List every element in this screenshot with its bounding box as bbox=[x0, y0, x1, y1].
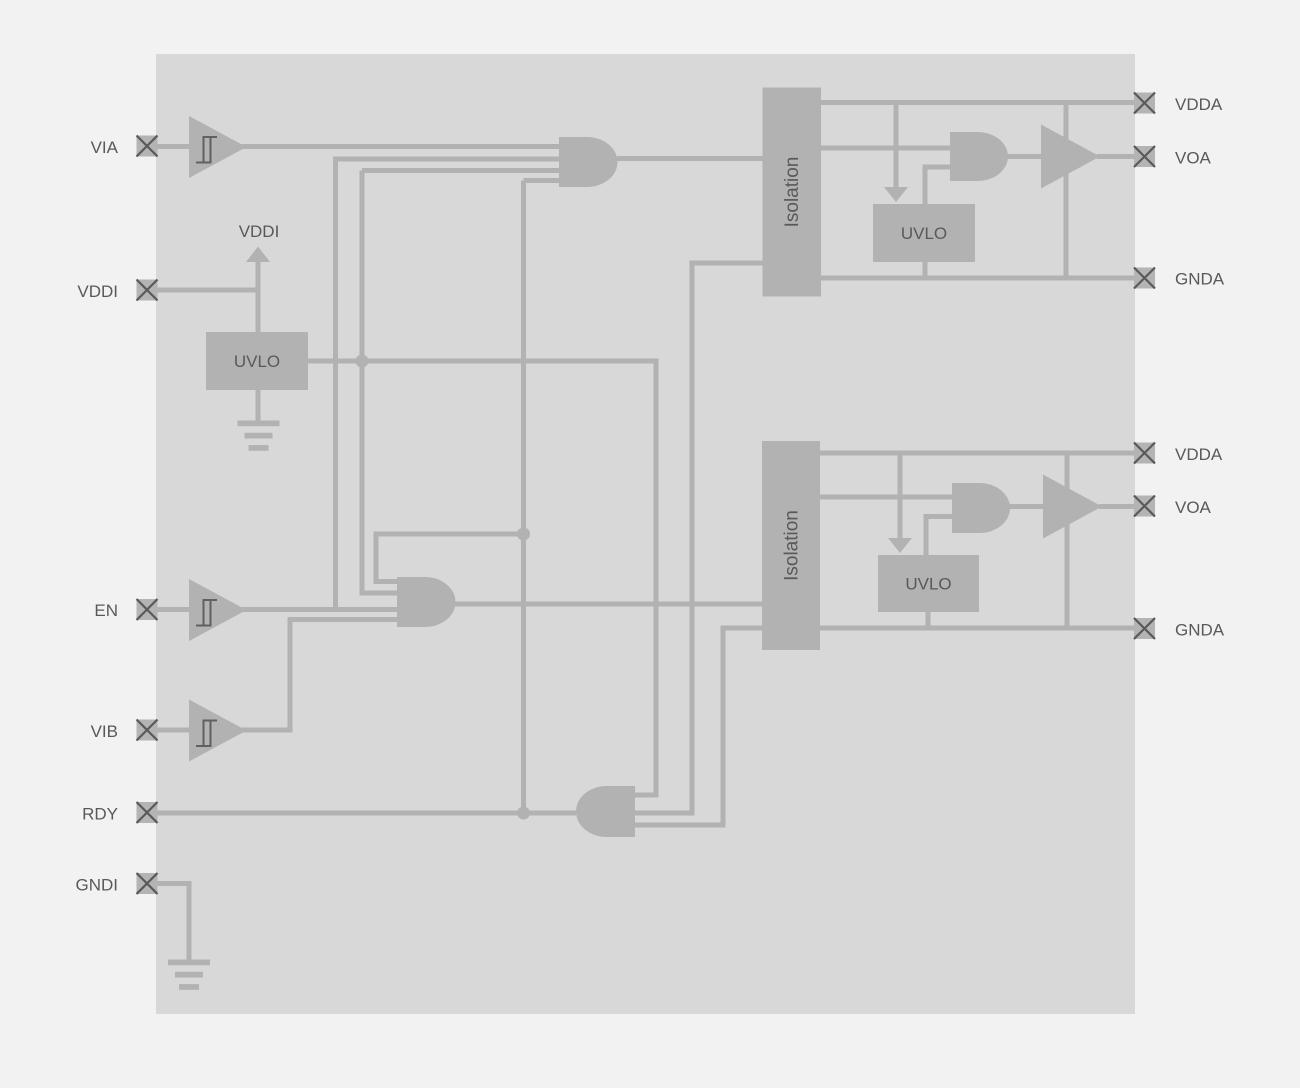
svg-text:EN: EN bbox=[94, 601, 118, 620]
pin EN bbox=[137, 599, 158, 620]
AND gate 1 (channel A logic) bbox=[559, 137, 618, 187]
AND gate 2 (channel B logic) bbox=[397, 577, 455, 627]
wire GNDI to ground bbox=[157, 884, 189, 962]
wire UVLO1 status to AND2 input2 bbox=[362, 361, 397, 593]
svg-text:VOA: VOA bbox=[1175, 498, 1212, 517]
AND gate 5 (channel B output) bbox=[952, 483, 1010, 533]
pin GNDA (channel A) bbox=[1134, 268, 1155, 289]
svg-text:Isolation: Isolation bbox=[782, 510, 803, 581]
wire GNDA-B rail bbox=[820, 626, 1134, 631]
wire UVLO1 status vertical bbox=[360, 171, 365, 362]
wire AND5 to buffer B bbox=[1008, 504, 1043, 509]
pin VDDA (channel A) bbox=[1134, 93, 1155, 114]
node RDY junction upper bbox=[517, 528, 530, 541]
wire isolation B to AND5 input1 bbox=[820, 495, 952, 500]
wire UVLO3 to GNDA-B bbox=[926, 612, 931, 628]
wire UVLO1 status to AND3 input1 bbox=[308, 361, 656, 795]
wire VDDA-B to UVLO3 bbox=[898, 453, 903, 539]
wire VIB to AND2 input4 bbox=[157, 620, 397, 731]
VDDI arrow up bbox=[246, 247, 270, 263]
wire VDDA-B to GNDA-B vertical bbox=[1065, 453, 1070, 628]
wire VDDI vertical bbox=[256, 262, 261, 332]
output buffer A bbox=[1041, 125, 1100, 189]
pin RDY bbox=[137, 802, 158, 823]
wire VDDA-B rail bbox=[820, 451, 1134, 456]
svg-text:VDDI: VDDI bbox=[239, 222, 280, 241]
pin VDDA (channel B) bbox=[1134, 443, 1155, 464]
wire isolation B feedback to AND3 input3 bbox=[635, 628, 762, 825]
node RDY junction lower bbox=[517, 807, 530, 820]
UVLO U2 (channel A) bbox=[873, 204, 975, 262]
wire UVLO3 to AND5 input2 bbox=[926, 517, 952, 556]
wire EN pin to AND2 input3 bbox=[157, 607, 397, 612]
svg-text:VIA: VIA bbox=[91, 138, 119, 157]
node UVLO1 status junction bbox=[356, 355, 369, 368]
wire AND2 output to isolation B bbox=[454, 602, 762, 607]
wire isolation A to AND4 input1 bbox=[820, 146, 950, 151]
wire EN branch up to AND1 input2 bbox=[336, 159, 560, 610]
arrow into UVLO3 bbox=[888, 538, 912, 553]
pin VIA bbox=[137, 136, 158, 157]
AND gate 4 (channel A output) bbox=[950, 132, 1008, 181]
UVLO U1 (input side) bbox=[206, 332, 308, 390]
svg-text:VDDA: VDDA bbox=[1175, 95, 1223, 114]
isolation barrier A bbox=[763, 88, 822, 297]
output buffer B bbox=[1043, 475, 1102, 539]
pin VIB bbox=[137, 720, 158, 741]
arrow into UVLO2 bbox=[884, 187, 908, 202]
svg-text:RDY: RDY bbox=[82, 805, 118, 824]
wire UVLO2 to GNDA-A bbox=[923, 262, 928, 278]
wire GNDA-A rail bbox=[820, 276, 1134, 281]
isolation barrier B bbox=[762, 441, 820, 650]
AND gate 3 (RDY logic) bbox=[576, 786, 635, 837]
wire RDY pin to AND3 output bbox=[157, 811, 576, 816]
svg-text:VIB: VIB bbox=[91, 722, 118, 741]
wire VIA pin to AND1 input1 bbox=[157, 144, 559, 149]
wire isolation A feedback to AND3 input2 bbox=[635, 263, 763, 813]
wire RDY to AND2 input1 bbox=[376, 534, 524, 582]
svg-text:GNDA: GNDA bbox=[1175, 621, 1225, 640]
wire UVLO1 to ground bbox=[256, 390, 261, 422]
wire buffer A to VOA pin bbox=[1097, 154, 1134, 159]
wire UVLO2 to AND4 input2 bbox=[925, 167, 950, 204]
schmitt buffer VIB bbox=[189, 700, 247, 762]
ground GNDI bbox=[168, 960, 210, 990]
ground UVLO1 bbox=[238, 421, 280, 451]
wire AND1 output to isolation A bbox=[617, 156, 763, 161]
pin GNDI bbox=[137, 873, 158, 894]
schmitt buffer VIA bbox=[189, 116, 247, 178]
svg-text:UVLO: UVLO bbox=[234, 352, 280, 371]
schmitt buffer EN bbox=[189, 579, 247, 641]
pin GNDA (channel B) bbox=[1134, 618, 1155, 639]
wire UVLO1 status to AND1 input3 (top turn) bbox=[362, 168, 559, 173]
pin VOA (channel A) bbox=[1134, 146, 1155, 167]
svg-text:Isolation: Isolation bbox=[782, 157, 803, 228]
wire VDDA-A to GNDA-A vertical bbox=[1064, 103, 1069, 279]
wire RDY to AND1 input4 (top turn) bbox=[524, 178, 560, 183]
wire AND4 to buffer A bbox=[1006, 154, 1041, 159]
pin VDDI bbox=[137, 280, 158, 301]
svg-text:GNDA: GNDA bbox=[1175, 270, 1225, 289]
pin VOA (channel B) bbox=[1134, 496, 1155, 517]
svg-text:VOA: VOA bbox=[1175, 149, 1212, 168]
wire VDDI pin stub bbox=[157, 288, 258, 293]
wire RDY vertical bbox=[521, 181, 526, 814]
wire buffer B to VOA-B pin bbox=[1099, 504, 1134, 509]
UVLO U3 (channel B) bbox=[878, 555, 979, 612]
svg-text:GNDI: GNDI bbox=[76, 876, 119, 895]
wire VDDA-A rail bbox=[820, 100, 1134, 105]
wire VDDA-A to UVLO2 bbox=[894, 103, 899, 189]
svg-text:VDDI: VDDI bbox=[77, 282, 118, 301]
svg-text:UVLO: UVLO bbox=[905, 575, 951, 594]
svg-text:VDDA: VDDA bbox=[1175, 445, 1223, 464]
svg-text:UVLO: UVLO bbox=[901, 224, 947, 243]
IC body bbox=[156, 54, 1135, 1014]
